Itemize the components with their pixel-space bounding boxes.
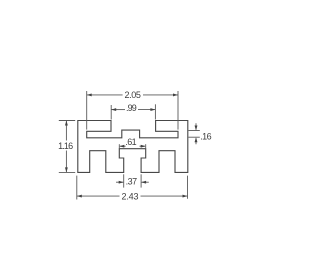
svg-text:2.05: 2.05 <box>124 90 141 100</box>
svg-text:2.43: 2.43 <box>122 191 139 201</box>
svg-text:.16: .16 <box>200 131 211 141</box>
svg-text:.99: .99 <box>126 103 137 113</box>
svg-text:.37: .37 <box>126 176 138 186</box>
svg-text:.61: .61 <box>125 137 136 147</box>
svg-text:1.16: 1.16 <box>58 141 73 151</box>
